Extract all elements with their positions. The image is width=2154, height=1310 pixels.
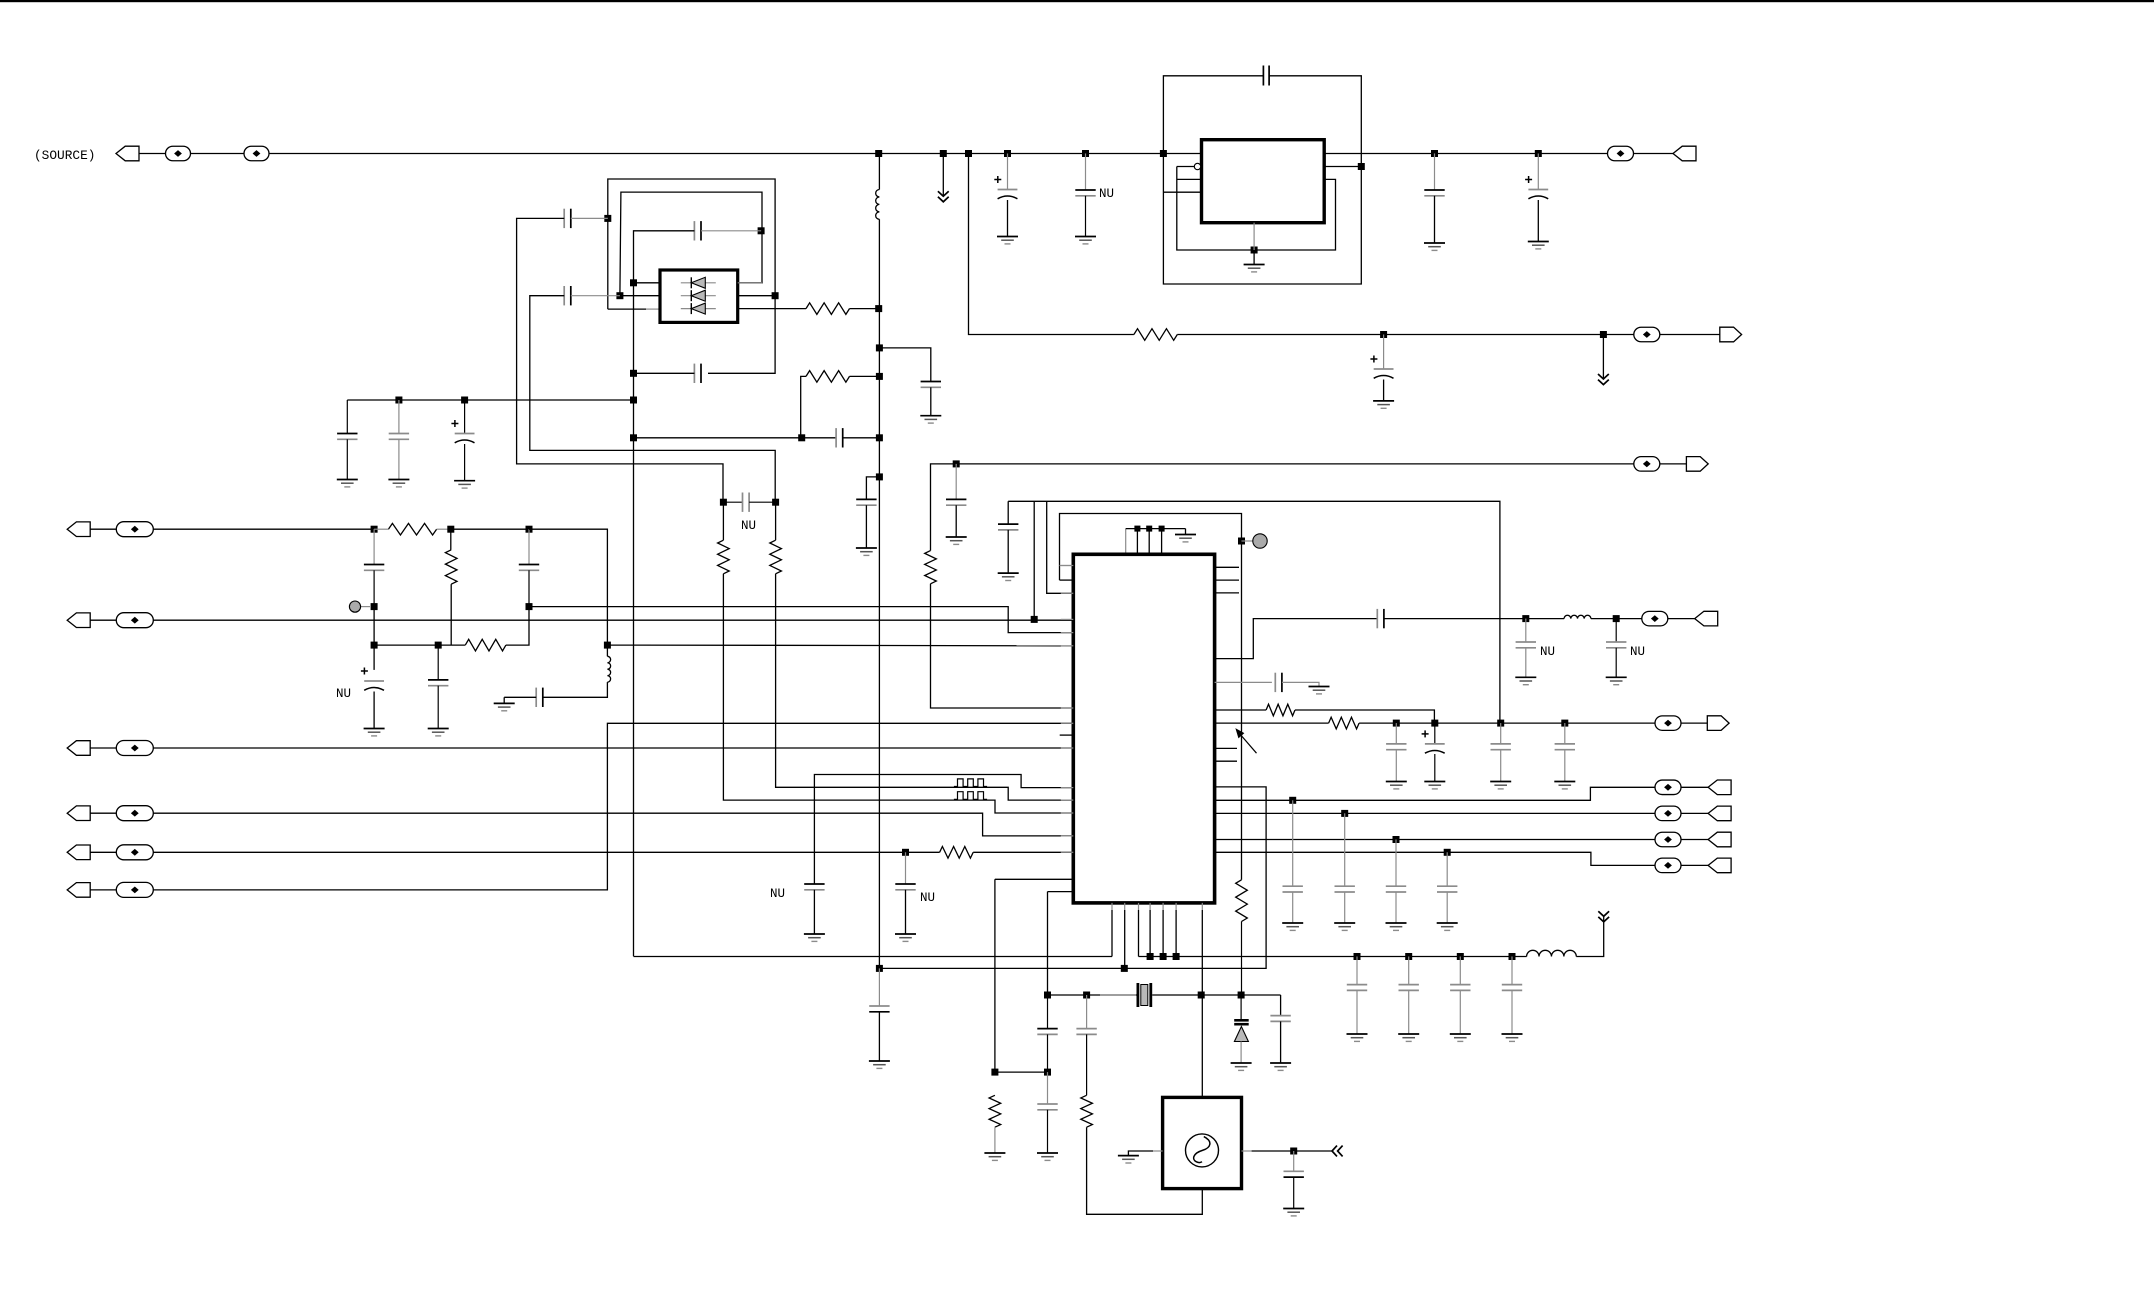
junction — [1380, 331, 1387, 338]
wire pin — [1148, 529, 1150, 555]
junction — [940, 150, 947, 157]
ground GND18 — [998, 573, 1019, 580]
wire — [813, 890, 815, 934]
ground GND20 — [1515, 677, 1536, 684]
wire pin — [1175, 903, 1177, 910]
wire — [1660, 463, 1687, 465]
junction — [1289, 797, 1296, 804]
capacitor C14 — [694, 364, 701, 383]
junction — [1431, 720, 1438, 727]
capacitor C2 (NU) — [1075, 190, 1095, 196]
capacitor C38 — [1386, 840, 1406, 924]
connector J-right6 — [1708, 780, 1731, 795]
junction — [1393, 720, 1400, 727]
ferrite bead FB4 — [1634, 327, 1660, 342]
wire pin2R — [738, 295, 775, 297]
svg-text:NU: NU — [770, 887, 785, 901]
label NU — [920, 891, 935, 905]
junction — [371, 526, 378, 533]
wire — [606, 645, 608, 656]
connector J-right4 — [1695, 611, 1718, 626]
wire — [878, 219, 880, 968]
wire — [450, 584, 452, 645]
pin stub — [1215, 747, 1237, 749]
wire — [955, 464, 957, 500]
junction — [630, 279, 637, 286]
off-page arrow — [1598, 374, 1609, 385]
ground GND7 — [946, 537, 967, 544]
ground GND36 — [1270, 1063, 1291, 1070]
capacitor C4 — [1424, 190, 1444, 196]
label NU — [1099, 187, 1114, 201]
wire row6 — [153, 723, 1073, 890]
wire — [1111, 910, 1113, 957]
junction — [1341, 810, 1348, 817]
junction — [395, 397, 402, 404]
capacitor C12 — [428, 645, 448, 728]
capacitor C42 — [1450, 957, 1470, 1035]
ground GND25 — [1554, 782, 1575, 789]
wire loop — [1163, 76, 1361, 284]
wire — [955, 505, 957, 537]
junction — [1290, 1148, 1297, 1155]
wire — [1085, 154, 1087, 191]
wire — [843, 437, 880, 439]
ferrite bead FB6 — [1642, 611, 1668, 626]
capacitor C21 — [389, 400, 409, 480]
label NU — [770, 887, 785, 901]
ground GND8 — [895, 934, 916, 941]
capacitor C10 — [519, 529, 539, 606]
wire — [1602, 335, 1604, 380]
wire — [607, 644, 1073, 647]
capacitor C26 — [998, 524, 1018, 530]
wire — [1215, 812, 1656, 814]
capacitor C39 — [1437, 852, 1457, 923]
wire — [1215, 619, 1378, 659]
svg-text:NU: NU — [1630, 645, 1645, 659]
ground GND17 — [856, 548, 877, 555]
inductor L2 — [876, 190, 880, 220]
junction — [1535, 150, 1542, 157]
wire — [1087, 1127, 1203, 1214]
junction — [1431, 150, 1438, 157]
wire pin — [1177, 178, 1202, 180]
junction — [720, 499, 727, 506]
wire pin — [1253, 223, 1255, 250]
wire — [1048, 994, 1137, 996]
wire — [1681, 839, 1708, 841]
wire — [1591, 618, 1642, 620]
capacitor C44 — [1270, 1016, 1290, 1022]
wire row5 — [153, 851, 939, 853]
wire — [931, 584, 1074, 708]
wire — [776, 574, 1074, 800]
wire — [634, 231, 695, 957]
wire pin — [1138, 903, 1140, 910]
junction — [1393, 836, 1400, 843]
wire — [1007, 501, 1009, 524]
ground GND39 — [984, 1153, 1005, 1160]
connector J-L3 + bead — [67, 741, 153, 756]
junction — [1147, 953, 1154, 960]
ferrite bead FB8 — [1655, 780, 1681, 795]
wire row3 — [153, 747, 1073, 749]
ic diode-array D1 — [660, 270, 738, 322]
wire pin — [1149, 903, 1151, 910]
capacitor C29 (NU) — [1606, 619, 1626, 678]
junction — [526, 526, 533, 533]
wire — [1215, 852, 1656, 865]
capacitor C11 (NU) — [361, 668, 384, 691]
wire — [504, 696, 536, 698]
adjust arrow — [1236, 729, 1256, 753]
wire pin3L — [608, 308, 646, 310]
wire — [451, 528, 529, 530]
wire — [801, 376, 806, 437]
junction — [965, 150, 972, 157]
label (SOURCE) — [34, 148, 95, 163]
pin stub — [1061, 707, 1074, 709]
diode D3 — [681, 303, 716, 314]
ic U3 — [1163, 1097, 1242, 1188]
junction — [604, 642, 611, 649]
junction — [875, 150, 882, 157]
junction — [876, 473, 883, 480]
logo S — [1194, 1137, 1210, 1163]
ground GND11 — [494, 703, 515, 710]
capacitor C16 — [564, 209, 571, 228]
label NU — [741, 519, 756, 533]
wire — [1253, 250, 1255, 265]
wire bus — [1126, 528, 1186, 530]
wire row5b — [973, 851, 1073, 853]
resistor R13 — [1329, 717, 1360, 729]
capacitor C6 polarized — [1370, 335, 1393, 401]
junction — [1044, 992, 1051, 999]
capacitor C40 — [1347, 957, 1367, 1035]
pin stub — [1215, 760, 1237, 762]
wire pin — [1125, 529, 1127, 555]
wire — [1152, 994, 1280, 996]
connector J-L2 + bead — [67, 613, 153, 628]
wire — [1007, 200, 1009, 237]
wire line1a — [634, 956, 1113, 958]
junction — [1522, 615, 1529, 622]
junction — [1004, 150, 1011, 157]
wire — [1324, 153, 1673, 155]
wire — [931, 464, 1634, 551]
wire — [517, 218, 723, 502]
wire — [850, 308, 879, 310]
connector J-L6 + bead — [67, 882, 153, 897]
resistor R1 — [1134, 329, 1177, 341]
wire pin — [1111, 903, 1113, 910]
capacitor C33 — [1555, 723, 1575, 781]
capacitor C43 — [1502, 957, 1522, 1035]
ground GND6 — [1373, 401, 1394, 408]
border bar top — [0, 0, 2154, 2]
wire — [1085, 196, 1087, 237]
wire — [1177, 167, 1336, 251]
wire — [1124, 910, 1126, 968]
wire — [1185, 529, 1187, 535]
wire — [1215, 722, 1329, 724]
capacitor C22 polarized — [451, 400, 474, 481]
junction — [447, 526, 454, 533]
wire pin — [1242, 1150, 1252, 1152]
resistor R6 — [465, 639, 506, 651]
ic U2 — [1202, 140, 1325, 223]
wire — [701, 230, 761, 232]
wire — [942, 154, 944, 197]
junction — [1031, 616, 1038, 623]
wire — [1681, 864, 1708, 866]
wire — [1434, 196, 1436, 243]
test point TP2 — [1242, 534, 1268, 548]
connector J-right7 — [1708, 806, 1731, 821]
pin stub — [1061, 618, 1074, 620]
wire — [437, 528, 451, 530]
wire — [1177, 166, 1194, 168]
capacitor C19 (NU) — [804, 884, 824, 890]
wire — [1047, 501, 1074, 593]
connector J-source — [116, 146, 139, 161]
pin stub — [1061, 799, 1074, 801]
capacitor C46 — [1037, 1072, 1057, 1153]
ground GND31 — [1437, 923, 1458, 930]
inductor L3 — [1564, 615, 1591, 618]
junction — [1198, 992, 1205, 999]
junction — [1600, 331, 1607, 338]
junction — [1160, 953, 1167, 960]
wire — [1033, 501, 1035, 619]
junction — [1358, 163, 1365, 170]
wire — [1240, 1042, 1242, 1064]
off-page arrow — [938, 191, 949, 202]
wire — [1241, 922, 1243, 996]
junction — [630, 434, 637, 441]
ground GND22 — [1309, 687, 1330, 694]
ground GND26 — [1424, 782, 1445, 789]
wire — [1047, 892, 1049, 995]
junction — [876, 344, 883, 351]
wire — [775, 502, 777, 540]
wire — [373, 607, 375, 670]
wire — [1681, 812, 1708, 814]
wire — [1240, 995, 1242, 1019]
wire — [571, 217, 608, 219]
wire — [1201, 910, 1203, 1097]
wire — [373, 692, 375, 729]
svg-text:NU: NU — [1540, 645, 1555, 659]
pin stub — [1215, 592, 1239, 594]
junction — [991, 1069, 998, 1076]
capacitor C41 — [1399, 957, 1419, 1035]
ground GND19 — [1175, 535, 1196, 542]
wire line1c — [1576, 916, 1603, 956]
junction — [902, 849, 909, 856]
wire — [1282, 682, 1319, 686]
wire pin — [1161, 529, 1163, 555]
logo circle — [1186, 1134, 1219, 1167]
wire — [995, 1071, 1048, 1073]
resistor R4 — [388, 523, 436, 535]
pin stub — [1061, 565, 1074, 567]
wire row4 — [153, 813, 1073, 836]
wire pin — [1124, 903, 1126, 910]
wire loop1 — [1008, 501, 1500, 723]
diode D1 — [681, 277, 716, 288]
ground GND37 — [1231, 1063, 1252, 1070]
pin stub — [1060, 734, 1074, 736]
capacitor C24 — [921, 382, 941, 388]
off-page arrow — [1332, 1146, 1343, 1157]
wire pin — [1162, 903, 1164, 910]
junction — [1146, 526, 1152, 532]
ground GND4 — [1424, 243, 1445, 250]
wire pin — [1215, 709, 1267, 711]
capacitor C23 — [836, 428, 843, 447]
ground GND38 — [1037, 1153, 1058, 1160]
resistor R5 — [445, 550, 457, 584]
junction — [1405, 953, 1412, 960]
pin stub — [1061, 722, 1074, 724]
ground GND32 — [1347, 1034, 1368, 1041]
capacitor C18 (NU) — [723, 493, 775, 512]
resistor R3 — [940, 847, 974, 859]
wire — [571, 295, 620, 297]
off-page arrow — [1598, 911, 1609, 922]
wire — [878, 154, 880, 190]
wire — [530, 296, 775, 503]
wire — [1128, 1151, 1153, 1156]
resistor R12 — [1266, 704, 1295, 716]
capacitor C32 — [1491, 723, 1511, 781]
wire — [374, 644, 465, 646]
svg-text:(SOURCE): (SOURCE) — [34, 148, 95, 163]
junction — [1444, 849, 1451, 856]
wire — [1215, 787, 1656, 800]
wire — [1537, 154, 1539, 190]
pin stub — [1061, 645, 1074, 647]
ground GND34 — [1450, 1034, 1471, 1041]
ground GND29 — [1334, 923, 1355, 930]
label NU — [1540, 645, 1555, 659]
wire pin — [1163, 191, 1201, 193]
wire pin — [1215, 681, 1272, 683]
ferrite bead FB3 — [1608, 146, 1634, 161]
wire — [1280, 1021, 1282, 1063]
connector J-right1 — [1673, 146, 1696, 161]
wire — [1177, 334, 1634, 336]
wire — [1252, 1150, 1332, 1152]
ground GND27 — [869, 1061, 890, 1068]
ground GND30 — [1386, 923, 1407, 930]
ground GND13 — [337, 480, 358, 487]
capacitor C35 — [869, 1006, 889, 1012]
wire row1 — [153, 528, 374, 530]
wire — [930, 387, 932, 415]
wire — [1537, 200, 1539, 242]
junction — [604, 215, 611, 222]
ground GND21 — [1606, 677, 1627, 684]
junction — [772, 499, 779, 506]
ground GND33 — [1398, 1034, 1419, 1041]
resistor R2 — [925, 551, 937, 584]
wire — [1434, 154, 1436, 191]
inductor L4 — [1527, 950, 1577, 956]
connector J-right5 — [1707, 716, 1729, 731]
connector J-L4 + bead — [67, 806, 153, 821]
wire — [1215, 839, 1656, 841]
capacitor C28 (NU) — [1516, 619, 1536, 678]
ground GND41 — [1283, 1209, 1304, 1216]
capacitor C27 — [1377, 609, 1384, 628]
junction — [371, 642, 378, 649]
junction — [1561, 720, 1568, 727]
connector J-L1 + bead — [67, 522, 153, 537]
pin stub — [1061, 851, 1074, 853]
wire — [139, 153, 166, 155]
junction — [616, 292, 623, 299]
junction — [1251, 247, 1258, 254]
wire pin3L stub — [646, 308, 660, 310]
ground GND15 — [454, 481, 475, 488]
capacitor C1 polarized — [994, 176, 1017, 199]
connector J-L5 + bead — [67, 845, 153, 860]
junction — [1121, 965, 1128, 972]
capacitor C48 — [1284, 1151, 1304, 1209]
capacitor C3 — [1263, 66, 1269, 86]
junction — [461, 397, 468, 404]
capacitor C17 — [564, 286, 571, 305]
wire — [1681, 722, 1707, 724]
wire — [814, 775, 1073, 885]
wire — [969, 154, 1134, 335]
ground GND35 — [1502, 1034, 1523, 1041]
junction — [1134, 526, 1140, 532]
wire — [722, 502, 724, 540]
wire loop2 — [1060, 514, 1242, 880]
wire — [1138, 910, 1140, 957]
junction — [526, 603, 533, 610]
wire — [503, 697, 505, 703]
wire — [1280, 995, 1282, 1016]
junction — [876, 373, 883, 380]
wire — [450, 529, 452, 550]
wire — [634, 372, 695, 374]
wire — [347, 399, 633, 401]
wire pin — [1048, 891, 1074, 893]
connector J-right9 — [1708, 858, 1731, 873]
diode D4 — [1234, 1020, 1249, 1041]
resistor R14 — [989, 1095, 1001, 1127]
junction — [1354, 953, 1361, 960]
wire — [1359, 722, 1655, 724]
connector J-right3 — [1686, 457, 1708, 472]
junction — [371, 603, 378, 610]
junction — [1173, 953, 1180, 960]
capacitor C45 — [1037, 995, 1057, 1072]
wire pin1L — [634, 282, 660, 284]
wire pin — [1060, 579, 1074, 581]
label NU — [1630, 645, 1645, 659]
wire — [543, 682, 607, 697]
wire — [506, 607, 529, 646]
capacitor C47 — [1076, 995, 1096, 1095]
capacitor C37 — [1335, 813, 1355, 923]
